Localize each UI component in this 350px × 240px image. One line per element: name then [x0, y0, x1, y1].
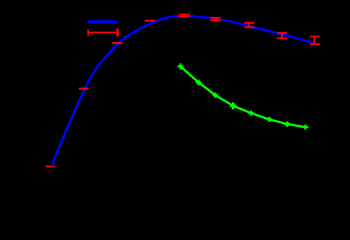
- green point marker 4: [230, 102, 236, 109]
- green curve (linespoints): [181, 66, 306, 127]
- green point marker 6: [267, 117, 273, 122]
- red errorbar point 9: [310, 37, 320, 45]
- green point marker 7: [284, 122, 290, 127]
- red errorbar point 7: [244, 23, 254, 27]
- red errorbar point 2: [79, 88, 89, 90]
- red errorbar point 1: [46, 165, 51, 167]
- green point marker 3: [213, 93, 219, 98]
- green point marker 2: [196, 80, 202, 86]
- legend blue line sample: [88, 20, 118, 23]
- red errorbar point 6: [210, 18, 221, 21]
- legend red errorbar sample: [88, 29, 118, 37]
- red errorbar point 5: [179, 15, 191, 17]
- red errorbar point 8: [277, 33, 287, 38]
- blue curve: [52, 16, 313, 165]
- red errorbar point 4: [145, 20, 155, 22]
- red errorbar point 3: [112, 42, 122, 44]
- green point marker 1: [178, 63, 184, 69]
- green point marker 8: [303, 125, 309, 130]
- green point marker 5: [248, 111, 254, 116]
